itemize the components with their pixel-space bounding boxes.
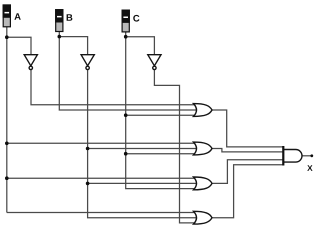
inverter U2 — [81, 55, 94, 70]
wire B vertical — [59, 32, 196, 110]
junction C at G1 row — [124, 113, 128, 117]
wire A to gate G3 input1 — [7, 177, 196, 179]
or-gate G3 — [194, 177, 213, 190]
switch C — [122, 10, 129, 32]
junction A to inverter branch — [5, 35, 9, 39]
junction B to inverter branch — [58, 35, 62, 39]
wire G4 output to final gate input4 — [212, 165, 283, 218]
label A — [14, 13, 20, 20]
wire U1 output to gate G1 input1 — [31, 70, 196, 105]
or-gate G4 — [194, 211, 213, 224]
and-gate G5 body — [283, 150, 302, 163]
and-gate G5 input bar — [282, 146, 284, 166]
wire C branch to inverter U3 input — [126, 37, 155, 55]
node X output dot — [310, 154, 313, 157]
junction NOT B at G3 row — [86, 182, 90, 186]
label X — [307, 165, 312, 171]
inverter U3 — [148, 55, 161, 70]
or-gate G1 — [194, 104, 213, 117]
wire C to gate G1 input3 — [126, 114, 196, 116]
junction A at G2 row — [5, 142, 9, 146]
wire G2 output to final gate input2 — [212, 149, 283, 152]
label B — [67, 14, 73, 21]
wire final gate output to node X — [302, 155, 312, 157]
wire A branch to inverter U1 input — [7, 37, 31, 55]
wire G3 output to final gate input3 — [212, 160, 283, 184]
wire A vertical (switch A down to gate4 row) — [6, 27, 8, 213]
wire C to gate G2 input3 — [126, 153, 196, 155]
wire C vertical — [126, 32, 196, 189]
wire G1 output to final gate input1 — [212, 110, 283, 147]
wire A to gate G2 input1 — [7, 142, 196, 144]
or-gate G2 — [194, 142, 213, 155]
wire NOT B to gate G3 input2 — [88, 182, 196, 184]
wire A to gate G4 input1 — [7, 212, 196, 214]
wire NOT B to gate G2 input2 — [88, 148, 196, 150]
junction NOT B at G2 row — [86, 147, 90, 151]
junction C to inverter branch — [124, 35, 128, 39]
switch B — [56, 10, 63, 32]
wire U3 output (NOT C) routed right and down to gate G4 input3 — [154, 70, 196, 223]
inverter U1 — [24, 55, 37, 70]
junction C at G2 row — [124, 152, 128, 156]
switch A — [3, 5, 10, 27]
wire B branch to inverter U2 input — [59, 37, 87, 55]
label C — [133, 15, 139, 22]
junction A at G3 row — [5, 176, 9, 180]
wire U2 output vertical (NOT B) — [88, 70, 196, 218]
